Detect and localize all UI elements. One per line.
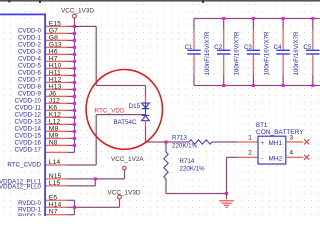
wire pin N7 RVDD-2 xyxy=(46,214,68,215)
capacitor C3 xyxy=(253,19,254,30)
junction bus row M9 xyxy=(73,137,76,140)
svg-text:E15: E15 xyxy=(49,20,61,27)
svg-text:CVDD-9: CVDD-9 xyxy=(18,90,42,97)
junction C3 top rail xyxy=(252,17,255,20)
chip box right edge xyxy=(44,14,46,217)
svg-text:K12: K12 xyxy=(49,111,61,118)
svg-text:H14: H14 xyxy=(49,201,62,208)
svg-text:4: 4 xyxy=(290,150,294,157)
svg-text:CVDD-7: CVDD-7 xyxy=(18,76,42,83)
wire BT1 pin4 xyxy=(286,157,303,158)
svg-text:C4: C4 xyxy=(274,44,282,51)
svg-text:C1: C1 xyxy=(185,44,193,51)
junction bus row H12 xyxy=(73,81,76,84)
wire BT1 pin2 drop xyxy=(226,157,227,193)
svg-text:MH2: MH2 xyxy=(269,156,283,163)
junction bus row H7 xyxy=(73,60,76,63)
power symbol circle VCC_1V2A xyxy=(123,166,127,170)
junction bus row J12 xyxy=(73,102,76,105)
svg-text:CVDD-12: CVDD-12 xyxy=(15,111,42,118)
svg-text:BAT54C: BAT54C xyxy=(114,119,137,126)
junction bus row H11 xyxy=(73,74,76,77)
wire RTC_VDD vertical down to L14 row xyxy=(96,115,97,165)
svg-text:-: - xyxy=(261,156,263,163)
svg-text:H7: H7 xyxy=(49,55,58,62)
svg-text:N8: N8 xyxy=(49,139,58,146)
wire pin H7 row xyxy=(46,61,68,62)
wire R713 to BT1 pin1 xyxy=(212,141,238,142)
svg-text:CVDD-3: CVDD-3 xyxy=(18,48,42,55)
svg-text:H12: H12 xyxy=(49,76,62,83)
wire pin K12 row xyxy=(46,117,68,118)
svg-text:CVDD-16: CVDD-16 xyxy=(15,139,42,146)
svg-text:100nF/16V/X7R: 100nF/16V/X7R xyxy=(263,31,270,76)
wire pin K6 row xyxy=(46,110,68,111)
wire pin G13 row xyxy=(46,47,68,48)
wire BT1 pin2 horizontal xyxy=(227,157,238,158)
junction bus row G7 xyxy=(73,32,76,35)
wire horizontal to diode top xyxy=(96,85,145,86)
svg-text:100nF/16V/X7R: 100nF/16V/X7R xyxy=(204,31,211,76)
wire RVDD bus xyxy=(74,200,75,214)
capacitor C5 xyxy=(312,19,313,30)
diode D15 bottom pin stub xyxy=(145,121,146,127)
wire pin CVDD-17 row xyxy=(46,152,68,153)
diode D15 upper cathode bar xyxy=(142,108,150,109)
svg-text:CVDD-11: CVDD-11 xyxy=(15,104,42,111)
junction bus row K6 xyxy=(73,109,76,112)
svg-text:100nF/16V/X7R: 100nF/16V/X7R xyxy=(234,31,241,76)
wire junction down to R714 xyxy=(165,142,166,152)
sheet border tick x=203 xyxy=(202,0,204,3)
svg-text:H13: H13 xyxy=(49,83,62,90)
wire VCC_1V3D drop to bus xyxy=(74,18,75,27)
wire pin N8 row xyxy=(46,145,68,146)
svg-text:CVDD-10: CVDD-10 xyxy=(15,97,42,104)
wire pin H6 row xyxy=(46,54,68,55)
svg-text:RTC_CVDD: RTC_CVDD xyxy=(7,162,41,169)
junction bus row L12 xyxy=(73,123,76,126)
diode D15 upper diode triangle xyxy=(142,103,150,108)
svg-text:CVDD-14: CVDD-14 xyxy=(15,125,42,132)
junction bus row G8 xyxy=(73,39,76,42)
svg-text:C2: C2 xyxy=(214,44,222,51)
junction C3 bottom rail xyxy=(252,84,255,87)
wire pin J12 row xyxy=(46,103,68,104)
svg-text:J6: J6 xyxy=(49,90,56,97)
wire RTC_VDD tap from diode common cathode xyxy=(96,114,145,115)
junction RVDD bus H14 xyxy=(73,206,76,209)
resistor R714 zigzag xyxy=(164,152,168,179)
svg-text:CVDD-1: CVDD-1 xyxy=(18,34,42,41)
junction C4 bottom rail xyxy=(282,84,285,87)
svg-text:L15: L15 xyxy=(49,180,61,187)
wire L15 up to N15 row xyxy=(95,179,96,186)
wire pin M8 row xyxy=(46,131,68,132)
svg-text:220K/1%: 220K/1% xyxy=(172,143,198,150)
connector BT1 box xyxy=(258,136,286,164)
red highlight ellipse around D15 xyxy=(86,70,162,150)
wire BT1 pin3 xyxy=(286,141,303,142)
svg-text:220K/1%: 220K/1% xyxy=(180,166,206,173)
wire capacitor top rail xyxy=(194,18,320,19)
junction C2 top rail xyxy=(222,17,225,20)
diode D15 lower cathode bar xyxy=(142,115,150,116)
junction bus row H13 xyxy=(73,88,76,91)
wire vertical x=96.2 down xyxy=(96,26,97,85)
chip box top edge xyxy=(0,14,46,16)
svg-text:CVDD-15: CVDD-15 xyxy=(15,132,42,139)
wire pin E5 RVDD-0 xyxy=(46,200,68,201)
wire pin H10 row xyxy=(46,68,68,69)
sheet border tick x=9 xyxy=(8,0,10,2)
svg-text:RTC_VDD: RTC_VDD xyxy=(95,107,125,114)
wire pin G7 row xyxy=(46,33,68,34)
wire ground rail horizontal xyxy=(166,193,227,194)
diode D15 body lead xyxy=(145,103,146,116)
wire pin H12 row xyxy=(46,82,68,83)
wire R714 to ground rail xyxy=(165,179,166,194)
svg-text:+: + xyxy=(261,140,265,147)
wire CVDD vertical bus xyxy=(74,26,75,152)
wire junction to R713 xyxy=(166,141,189,142)
wire stub to ground xyxy=(226,194,227,200)
svg-text:VCC_1V2A: VCC_1V2A xyxy=(111,156,144,163)
capacitor C1 xyxy=(193,19,194,30)
svg-text:G7: G7 xyxy=(49,27,58,34)
power symbol circle VCC_1V3D bottom xyxy=(118,195,122,199)
wire bus to corner right xyxy=(75,26,97,27)
svg-text:K6: K6 xyxy=(49,104,58,111)
sheet top border line xyxy=(0,0,320,2)
svg-text:CVDD-4: CVDD-4 xyxy=(18,55,42,62)
svg-text:2: 2 xyxy=(248,150,252,157)
svg-text:H6: H6 xyxy=(49,48,58,55)
resistor R713 zigzag xyxy=(189,140,212,144)
svg-text:G13: G13 xyxy=(49,41,62,48)
sheet border tick x=40 xyxy=(39,0,41,3)
diode D15 top pin stub xyxy=(145,97,146,104)
wire down to diode anode xyxy=(145,86,146,97)
wire to VCC_1V3D bottom xyxy=(75,207,120,208)
svg-text:J12: J12 xyxy=(49,97,60,104)
svg-text:R713: R713 xyxy=(172,135,187,142)
svg-text:VCC_1V3D: VCC_1V3D xyxy=(108,190,141,197)
svg-text:E5: E5 xyxy=(49,194,58,201)
junction C2 bottom rail xyxy=(222,84,225,87)
svg-text:CVDD-8: CVDD-8 xyxy=(18,83,42,90)
svg-text:CON_BATTERY: CON_BATTERY xyxy=(256,129,304,136)
no-connect X pin3 xyxy=(304,139,309,144)
svg-text:H10: H10 xyxy=(49,62,62,69)
junction bus row H10 xyxy=(73,67,76,70)
svg-text:1: 1 xyxy=(248,134,252,141)
svg-text:M8: M8 xyxy=(49,125,59,132)
no-connect X pin4 xyxy=(304,155,309,160)
wire pin N15 DDA12_PLL1 xyxy=(46,178,68,179)
wire pin L12 row xyxy=(46,124,68,125)
pin stub BT1 pin1 xyxy=(238,141,259,142)
svg-text:CVDD-17: CVDD-17 xyxy=(15,146,42,153)
wire diode bottom down xyxy=(145,127,146,142)
svg-text:3: 3 xyxy=(290,134,294,141)
svg-text:R714: R714 xyxy=(180,158,195,165)
junction ground node xyxy=(225,192,228,195)
svg-text:CVDD-5: CVDD-5 xyxy=(18,62,42,69)
junction C5 bottom rail xyxy=(311,84,314,87)
svg-text:C3: C3 xyxy=(244,44,252,51)
svg-text:D15: D15 xyxy=(129,103,141,110)
junction C4 top rail xyxy=(282,17,285,20)
wire pin E15 row xyxy=(46,26,68,27)
svg-text:L12: L12 xyxy=(49,118,61,125)
wire pin M9 row xyxy=(46,138,68,139)
wire capacitor bottom rail xyxy=(194,85,320,86)
svg-text:RVDD-2: RVDD-2 xyxy=(18,213,41,216)
svg-text:N7: N7 xyxy=(49,209,58,216)
svg-text:N15: N15 xyxy=(49,173,62,180)
junction bus row H6 xyxy=(73,53,76,56)
svg-text:CVDD-6: CVDD-6 xyxy=(18,69,42,76)
wire pin H14 RVDD-1 xyxy=(46,207,68,208)
capacitor C2 xyxy=(223,19,224,30)
wire junction to VCC_1V2A xyxy=(95,178,124,179)
junction node divider xyxy=(164,140,167,143)
svg-text:C5: C5 xyxy=(303,44,311,51)
svg-text:VCC_1V3D: VCC_1V3D xyxy=(61,7,94,14)
svg-text:H11: H11 xyxy=(49,69,61,76)
wire pin L14 RTC_CVDD xyxy=(46,164,68,165)
svg-text:M9: M9 xyxy=(49,132,59,139)
diode D15 lower diode triangle xyxy=(142,116,150,121)
svg-text:VDDA12_PLL0: VDDA12_PLL0 xyxy=(0,183,42,190)
power symbol circle VCC_1V3D top xyxy=(73,14,77,18)
svg-text:100nF/16V/X7R: 100nF/16V/X7R xyxy=(293,31,300,76)
wire pin J6 row xyxy=(46,96,68,97)
wire pin H13 row xyxy=(46,89,68,90)
junction bus row M8 xyxy=(73,130,76,133)
svg-text:L14: L14 xyxy=(49,159,61,166)
wire diode bottom to junction xyxy=(146,141,167,142)
ground symbol xyxy=(219,200,234,201)
svg-text:CVDD-13: CVDD-13 xyxy=(15,118,42,125)
svg-text:G8: G8 xyxy=(49,34,58,41)
junction N15/L15/VCC_1V2A xyxy=(94,177,97,180)
junction C5 top rail xyxy=(311,17,314,20)
wire pin H11 row xyxy=(46,75,68,76)
junction bus row K12 xyxy=(73,116,76,119)
capacitor C4 xyxy=(283,19,284,30)
junction bus row E15 xyxy=(73,25,76,28)
junction bus row J6 xyxy=(73,95,76,98)
wire pin G8 row xyxy=(46,40,68,41)
junction bus row N8 xyxy=(73,144,76,147)
svg-text:CVDD-2: CVDD-2 xyxy=(18,41,42,48)
svg-text:MH1: MH1 xyxy=(269,140,283,147)
svg-text:CVDD-0: CVDD-0 xyxy=(18,27,42,34)
junction bus row G13 xyxy=(73,46,76,49)
wire pin L15 DDA12_PLL0 xyxy=(46,185,68,186)
